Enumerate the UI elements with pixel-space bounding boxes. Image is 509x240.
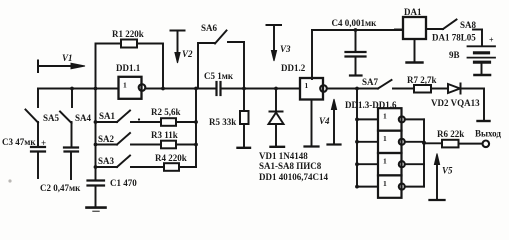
svg-text:DA1: DA1 <box>404 7 422 17</box>
inverter gate DD1.3 <box>378 108 405 130</box>
capacitor C5 <box>204 71 234 95</box>
resistor R2 <box>151 107 196 126</box>
wire SA7 to R7 <box>393 88 414 90</box>
svg-text:SA1-SA8 ПИС8: SA1-SA8 ПИС8 <box>259 161 322 171</box>
parts list text <box>259 151 328 182</box>
svg-text:C4 0,001мк: C4 0,001мк <box>332 18 378 28</box>
ground under DA1 <box>407 39 423 63</box>
svg-text:SA4: SA4 <box>75 113 92 123</box>
svg-text:V4: V4 <box>319 116 330 126</box>
switch SA8 <box>426 20 482 31</box>
svg-text:1: 1 <box>123 81 127 90</box>
voltage regulator DA1 78L05 <box>395 7 426 39</box>
wire R7 to VD2 <box>431 88 448 90</box>
wire main bus middle segment <box>146 88 216 90</box>
svg-text:VD1 1N4148: VD1 1N4148 <box>259 151 308 161</box>
wire main bus left segment <box>38 88 119 90</box>
switch SA6 <box>198 23 244 89</box>
wire gates output bus <box>423 119 425 186</box>
svg-text:SA6: SA6 <box>201 23 218 33</box>
capacitor C4 <box>332 18 378 76</box>
ground under battery <box>475 74 491 77</box>
svg-text:DD1.3-DD1.6: DD1.3-DD1.6 <box>345 100 397 110</box>
switch SA4 <box>60 89 92 147</box>
resistor R3 <box>151 130 196 148</box>
scan speck <box>8 179 11 182</box>
wire input stubs to gates <box>357 118 378 120</box>
svg-text:C1 470: C1 470 <box>110 178 137 188</box>
diode VD2 <box>431 84 480 109</box>
inverter gate DD1.1 <box>116 63 145 99</box>
wire bubble stubs to output bus <box>405 118 424 120</box>
wire output bus to R6 <box>424 142 442 144</box>
svg-text:C3 47мк: C3 47мк <box>2 137 36 147</box>
resistor R7 <box>407 75 437 93</box>
svg-text:SA2: SA2 <box>98 134 115 144</box>
svg-text:1: 1 <box>383 134 387 143</box>
inverter gate DD1.6 <box>378 175 405 197</box>
resistor R1 <box>96 29 164 89</box>
svg-text:R5 33k: R5 33k <box>209 117 236 127</box>
svg-text:Выход: Выход <box>475 129 501 139</box>
ground under C1 <box>87 208 106 212</box>
svg-text:DA1 78L05: DA1 78L05 <box>432 33 476 43</box>
switch SA7 <box>362 77 392 89</box>
resistor R6 <box>437 129 482 147</box>
svg-text:9В: 9В <box>449 50 460 60</box>
svg-text:V3: V3 <box>280 44 291 54</box>
node V2 <box>171 31 194 64</box>
inverter gate DD1.5 <box>378 153 405 175</box>
svg-text:R7 2,7k: R7 2,7k <box>407 75 437 85</box>
node V3 <box>267 25 292 61</box>
svg-text:1: 1 <box>383 179 387 188</box>
svg-text:DD1.1: DD1.1 <box>116 63 141 73</box>
capacitor C3 <box>2 137 46 178</box>
wire VD2 to corner and down to T-bar <box>461 89 490 122</box>
svg-text:1: 1 <box>383 112 387 121</box>
svg-text:SA1: SA1 <box>99 111 116 121</box>
svg-text:R6 22k: R6 22k <box>437 129 464 139</box>
wire DD1.2 output to SA7 <box>327 88 378 90</box>
battery GB1 9V <box>449 30 495 75</box>
capacitor C2 <box>40 148 81 194</box>
switch SA3 <box>96 156 165 168</box>
wire main bus to DD1.2 input <box>222 88 301 90</box>
resistor R5 <box>209 42 250 148</box>
wire DD1.2 power lead to top rail <box>311 30 313 79</box>
output terminal Выход <box>475 129 501 148</box>
svg-text:VD2 VQA13: VD2 VQA13 <box>431 98 480 108</box>
svg-text:1: 1 <box>383 156 387 165</box>
svg-text:DD1.2: DD1.2 <box>281 63 306 73</box>
wire top rail <box>312 29 403 31</box>
svg-text:R4 220k: R4 220k <box>155 153 187 163</box>
svg-text:SA8: SA8 <box>460 20 477 30</box>
wire DD1.2 bottom lead with T-bar <box>305 100 319 147</box>
svg-text:C5 1мк: C5 1мк <box>204 71 234 81</box>
diode VD1 <box>269 89 285 147</box>
svg-text:SA3: SA3 <box>98 156 115 166</box>
resistor R4 <box>155 153 196 171</box>
switch SA1 <box>96 111 162 123</box>
svg-text:V5: V5 <box>442 166 453 176</box>
svg-text:+: + <box>41 138 46 148</box>
svg-text:+: + <box>489 36 494 45</box>
svg-text:SA5: SA5 <box>43 113 60 123</box>
capacitor C1 <box>88 178 138 207</box>
inverter gate DD1.2 <box>281 63 327 100</box>
node V5 <box>430 154 454 201</box>
svg-text:V2: V2 <box>182 49 193 59</box>
wire gates input bus <box>356 89 358 187</box>
svg-text:SA7: SA7 <box>362 77 379 87</box>
svg-text:R3 11k: R3 11k <box>151 130 178 140</box>
wire left vertical bus R1/SA1-SA3 <box>95 89 97 181</box>
svg-text:R2 5,6k: R2 5,6k <box>151 107 181 117</box>
inverter gate DD1.4 <box>378 131 405 153</box>
wire right vertical bus of R2-R4 <box>195 89 197 168</box>
svg-text:V1: V1 <box>62 53 73 63</box>
svg-text:DD1 40106,74C14: DD1 40106,74C14 <box>259 172 328 182</box>
switch SA5 <box>26 89 60 147</box>
svg-text:R1 220k: R1 220k <box>112 29 144 39</box>
switch SA2 <box>96 133 162 145</box>
node V4 <box>319 99 341 145</box>
svg-text:1: 1 <box>305 81 309 90</box>
node V1 <box>38 53 85 72</box>
svg-text:C2 0,47мк: C2 0,47мк <box>40 183 81 193</box>
